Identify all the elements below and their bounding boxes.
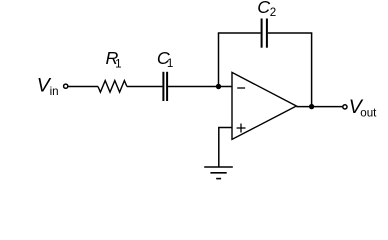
- wire feedback top left to C2: [218, 32, 261, 34]
- wire feedback left leg: [218, 33, 220, 87]
- resistor R1: [98, 81, 127, 93]
- svg-text:C2: C2: [257, 0, 276, 19]
- junction node A (inverting input): [216, 84, 221, 89]
- svg-text:C1: C1: [157, 48, 173, 70]
- wire R1 to C1: [127, 86, 162, 88]
- wire Vin terminal to R1: [68, 86, 98, 88]
- capacitor C1: [163, 72, 167, 101]
- node Vin terminal: [64, 84, 68, 88]
- pin + (non-inverting input marker): [237, 124, 246, 133]
- junction node B (output): [309, 104, 314, 109]
- wire op-amp non-inverting input to ground: [219, 128, 232, 168]
- wire feedback right leg: [311, 33, 313, 107]
- wire C2 to feedback right leg: [268, 32, 312, 34]
- pin - (inverting input marker): [237, 87, 245, 89]
- wire op-amp output: [296, 106, 342, 108]
- svg-text:R1: R1: [106, 48, 122, 70]
- capacitor C2: [262, 19, 267, 48]
- node Vout terminal: [343, 105, 347, 109]
- svg-text:Vout: Vout: [349, 96, 377, 120]
- op-amp U1: [232, 72, 296, 139]
- wire C1 to op-amp inverting input: [168, 86, 232, 88]
- svg-text:Vin: Vin: [37, 75, 59, 98]
- ground: [204, 167, 233, 179]
